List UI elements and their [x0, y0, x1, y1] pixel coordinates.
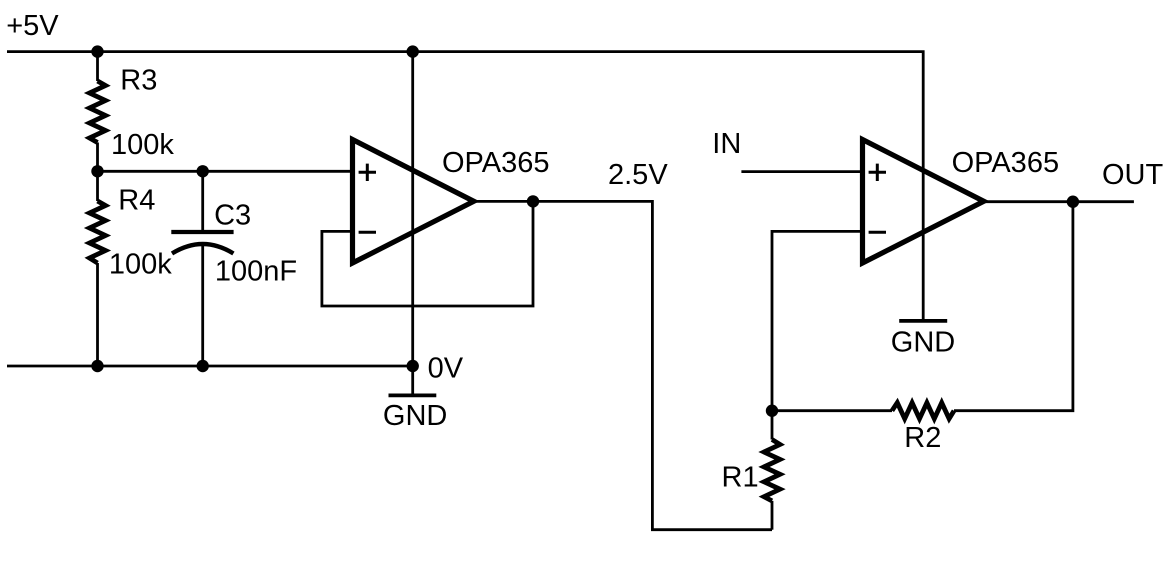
op-amp U2 triangle — [863, 140, 984, 264]
wire R3-R4 middle lead — [96, 143, 99, 202]
wire R2 to OUT vertical — [954, 202, 1073, 411]
svg-text:IN: IN — [712, 128, 741, 160]
svg-text:100k: 100k — [109, 249, 172, 281]
svg-text:0V: 0V — [428, 353, 464, 385]
wire R3 top lead — [96, 52, 99, 81]
wire +5V top rail — [7, 52, 923, 321]
node junction dot +5V/U1 power — [407, 45, 419, 57]
op-amp U1 plus sign — [359, 164, 376, 181]
wire U1 feedback loop — [322, 201, 533, 306]
node junction dot R1/R2 — [766, 405, 778, 417]
wire R1 top lead — [771, 411, 774, 440]
wire IN to U2 plus input — [741, 170, 862, 173]
wire U1 output to 2.5V node down to R1 — [474, 201, 773, 529]
op-amp U1 minus sign — [359, 231, 376, 234]
node junction dot 0V rail/C3 — [197, 360, 209, 372]
wire node A to op-amp U1 plus input — [98, 170, 353, 173]
wire C3 bottom lead — [201, 244, 204, 366]
node junction dot 2.5V output — [527, 195, 539, 207]
wire U2 minus input to node B — [772, 231, 863, 410]
resistor R4 — [90, 201, 106, 263]
svg-text:R3: R3 — [120, 65, 157, 97]
wire node B to R2 — [772, 409, 892, 412]
svg-text:R2: R2 — [904, 422, 941, 454]
svg-text:C3: C3 — [214, 200, 251, 232]
svg-text:GND: GND — [383, 400, 447, 432]
op-amp U2 plus sign — [869, 164, 886, 181]
wire U2 output to OUT — [984, 200, 1134, 203]
svg-text:GND: GND — [891, 327, 955, 359]
node junction dot 0V — [407, 360, 419, 372]
svg-text:2.5V: 2.5V — [608, 159, 668, 191]
wire bottom 0V rail — [7, 365, 413, 368]
node junction dot OUT — [1067, 196, 1079, 208]
wire C3 top lead — [201, 171, 204, 230]
wire U1 power/ground vertical — [411, 52, 414, 394]
svg-text:R1: R1 — [722, 461, 759, 493]
node junction dot C3 top — [197, 165, 209, 177]
svg-text:OPA365: OPA365 — [442, 147, 549, 179]
op-amp U1 triangle — [353, 140, 474, 264]
svg-text:100k: 100k — [111, 129, 174, 161]
svg-text:R4: R4 — [118, 185, 155, 217]
svg-text:OUT: OUT — [1102, 159, 1164, 191]
svg-text:+5V: +5V — [6, 10, 59, 42]
wire R1 bottom lead — [771, 501, 774, 530]
svg-text:OPA365: OPA365 — [952, 147, 1059, 179]
capacitor C3 top plate — [171, 230, 233, 234]
resistor R2 — [892, 403, 954, 419]
node junction dot 0V rail/R4 — [91, 360, 103, 372]
op-amp U2 minus sign — [869, 231, 886, 234]
ground symbol GND2 bar — [899, 319, 947, 323]
node junction dot +5V/R3 — [91, 45, 103, 57]
capacitor C3 bottom curved plate — [172, 244, 233, 254]
resistor R1 — [764, 440, 780, 501]
wire R4 bottom lead — [96, 263, 99, 366]
resistor R3 — [90, 81, 106, 143]
ground symbol GND1 bar — [389, 393, 437, 397]
node junction dot R3/R4 — [91, 165, 103, 177]
svg-text:100nF: 100nF — [215, 255, 297, 287]
